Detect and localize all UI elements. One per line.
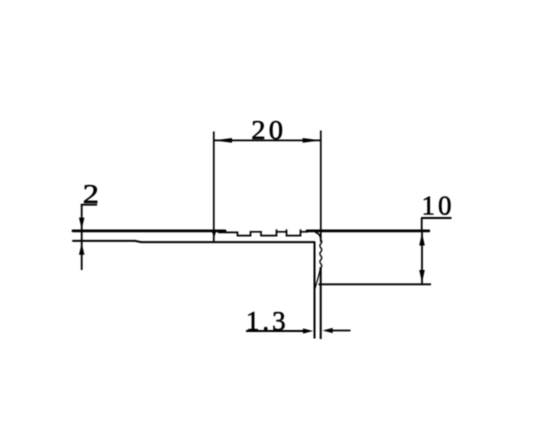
dimension 1.3 right tail xyxy=(331,330,351,332)
svg-text:10: 10 xyxy=(422,191,455,221)
dimension 10 bottom arrowhead xyxy=(419,270,425,283)
web left edge xyxy=(314,242,316,339)
wavy serration on web xyxy=(320,240,322,268)
dimension 10 line xyxy=(421,232,423,285)
serration tick 3 xyxy=(300,229,302,232)
profile top edge right segment xyxy=(307,229,429,232)
dimension 2 upper arrowhead xyxy=(79,218,85,229)
serrated top surface xyxy=(218,232,308,236)
dimension 20 left arrowhead xyxy=(214,138,232,143)
flange bottom edge xyxy=(73,241,315,242)
dimension 1.3 right arrowhead xyxy=(323,328,333,333)
dimension 2 dimension line through part xyxy=(81,205,83,270)
dimension 20 right arrowhead xyxy=(303,138,321,143)
web right edge xyxy=(320,267,322,339)
dimension 20 left extension line xyxy=(213,132,215,242)
dimension 10 top arrowhead xyxy=(419,233,425,246)
serration tick 2 xyxy=(286,229,288,232)
serration tick 1 xyxy=(276,229,278,232)
dimension 2 lower arrowhead xyxy=(79,244,85,255)
dimension 10 bottom extension line xyxy=(319,283,432,285)
dimension 20 line xyxy=(214,139,321,141)
svg-text:20: 20 xyxy=(251,116,286,146)
dimension 20 right extension line xyxy=(320,131,322,243)
profile top edge left segment xyxy=(73,229,225,232)
taper line xyxy=(315,268,321,289)
dimension 1.3 leader underline xyxy=(246,330,307,332)
dimension 1.3 left arrowhead xyxy=(303,328,313,333)
corner fillet xyxy=(315,232,321,240)
dimension 20 small arrow on extension line xyxy=(212,231,217,239)
dimension 2 underline xyxy=(81,204,97,206)
dimension 10 underline xyxy=(421,217,452,219)
dimension 10 leader vertical xyxy=(421,218,423,231)
